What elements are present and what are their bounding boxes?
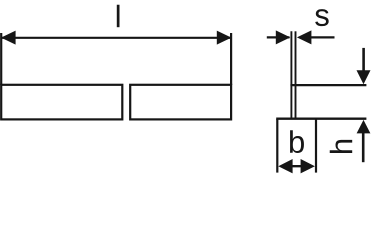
h dimension up arrow tail <box>362 133 365 162</box>
strip side view right segment <box>130 85 231 120</box>
strip edge view right line <box>295 31 297 119</box>
label l (length) <box>117 5 120 27</box>
h dimension down arrow tail <box>362 48 365 72</box>
label b (width) <box>290 130 304 153</box>
upper reference line (top surface) <box>290 84 366 86</box>
dimension line l <box>2 37 231 39</box>
arrowhead l right <box>217 31 232 45</box>
h dimension down arrowhead <box>357 70 371 84</box>
arrowhead s left (points right) <box>276 30 291 44</box>
arrowhead b right (points right) <box>301 159 315 173</box>
extension line left <box>0 33 2 85</box>
strip edge view left line <box>290 31 292 119</box>
b dimension line <box>281 165 311 167</box>
arrowhead b left (points left) <box>278 159 292 173</box>
end view box right side <box>315 119 317 173</box>
h dimension up arrowhead <box>357 120 371 133</box>
dimension s right line <box>310 36 335 38</box>
dimension s left line <box>267 36 290 38</box>
strip side view left segment <box>1 85 122 120</box>
end view box left side <box>276 119 278 173</box>
arrowhead s right (points left) <box>297 30 312 44</box>
label h (height, rotated 90 CCW) <box>330 140 352 153</box>
label s (thickness) <box>315 9 329 26</box>
arrowhead l left <box>1 31 16 45</box>
extension line right <box>230 33 232 85</box>
lower reference line (bottom surface) <box>276 118 366 120</box>
